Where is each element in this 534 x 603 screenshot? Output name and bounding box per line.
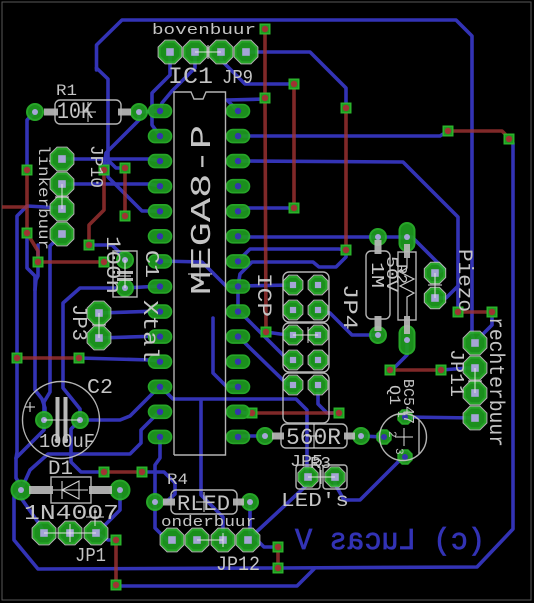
- wire JP4 col2 down to via339: [318, 385, 339, 413]
- wire piezo pad2 branch: [435, 286, 458, 298]
- wire red x104: [89, 170, 104, 245]
- wire 560R right pad to Q1 mid: [361, 436, 384, 437]
- Piezo origin line+cross: [428, 273, 442, 298]
- wire bottom rail left part: [14, 490, 278, 569]
- capacitor C2 outline: [23, 382, 100, 459]
- via (509,139): [504, 134, 514, 144]
- svg-text:R1: R1: [56, 82, 77, 100]
- via (458,312): [453, 307, 463, 317]
- pad D1 cathode pad: [111, 481, 130, 500]
- via (265,98): [260, 93, 270, 103]
- wire JP3 pad2 to DIP pin10L: [99, 336, 160, 338]
- JP1 aux cross: [86, 508, 104, 526]
- pad JP12 pin 1: [160, 528, 184, 552]
- via (116,585): [111, 580, 121, 590]
- pad LED header pin 1: [298, 467, 318, 487]
- via (27,170): [22, 165, 32, 175]
- wire Q1 top pad to JP11 pad4: [405, 417, 475, 418]
- pad JP11 pin 2: [463, 356, 487, 380]
- pad ICP/JP4 colB pin 1: [308, 275, 328, 295]
- wire JP9 pad1 to DIP pin2L: [152, 52, 170, 136]
- pad ICP/JP4 colB pin 5: [308, 375, 328, 395]
- pad Q1 base: [377, 430, 390, 443]
- wire DIP pin8R to ICP pad: [238, 285, 293, 286]
- via (492,312): [487, 307, 497, 317]
- wire right border from via509 to bottom: [278, 139, 513, 568]
- wire C1 bottom pad to DIP pin8L: [125, 286, 160, 288]
- svg-text:JP12: JP12: [216, 554, 260, 577]
- wire red ICP long: [265, 29, 266, 332]
- svg-text:D1: D1: [48, 458, 73, 481]
- wire LED pad1 diag to JP12 pad4: [248, 484, 308, 540]
- pad JP3 pin 2: [87, 326, 111, 350]
- wire red B: [292, 84, 296, 208]
- pad JP9 pin 4: [234, 40, 258, 64]
- resistor R3 560R body: [272, 424, 355, 448]
- diode PZ body (vertical): [398, 244, 416, 334]
- R1 origin cross: [80, 102, 96, 122]
- JP4 origin cross: [293, 327, 318, 343]
- wire Q1 bottom to LED pad2: [335, 457, 405, 500]
- pad JP10 pin 4: [50, 222, 74, 246]
- wire D1 left pad to JP1 pad1: [21, 498, 44, 533]
- wire red Q1: [390, 368, 441, 372]
- via (142,472): [137, 467, 147, 477]
- pad JP10 pin 1: [50, 147, 74, 171]
- svg-text:R4: R4: [167, 471, 188, 489]
- svg-text:1N4007: 1N4007: [24, 503, 119, 526]
- via (346,108): [341, 103, 351, 113]
- via (390,370): [385, 365, 395, 375]
- pad R1 pad 1: [27, 104, 43, 120]
- via (116,540): [111, 535, 121, 545]
- svg-text:100n: 100n: [100, 236, 123, 294]
- svg-text:JP3: JP3: [66, 304, 89, 341]
- wire DIP pin1R to via265: [227, 99, 265, 111]
- svg-text:Piezo: Piezo: [452, 249, 475, 312]
- capacitor C1 outline: [113, 251, 137, 297]
- pad R1 pad 2: [131, 104, 147, 120]
- pad JP12 pin 4: [236, 528, 260, 552]
- svg-text:100uF: 100uF: [39, 431, 95, 453]
- svg-text:IC1: IC1: [168, 64, 213, 90]
- R3 origin cross: [306, 424, 322, 448]
- svg-text:C2: C2: [87, 377, 113, 400]
- via (252,413): [247, 408, 257, 418]
- resistor R1 body: [44, 100, 131, 124]
- wire red JP12: [276, 547, 280, 568]
- pad JP9 pin 3: [209, 40, 233, 64]
- wire DIP pin13R to via252: [238, 411, 252, 413]
- pad C1 pad 2: [117, 280, 133, 296]
- Q1 origin cross: [395, 428, 413, 446]
- wire JP10 pad1 to DIP pin3L: [62, 159, 160, 161]
- R4 origin cross: [196, 492, 212, 512]
- via (27,233): [22, 228, 32, 238]
- via (346,250): [341, 245, 351, 255]
- wire red left A: [27, 170, 38, 262]
- pad Piezo connector pin 1: [424, 262, 445, 283]
- pad JP11 pin 3: [463, 381, 487, 405]
- resistor R2 1M body (vertical): [366, 240, 390, 331]
- LED origin line+cross: [308, 470, 335, 484]
- wire red x125: [123, 168, 127, 216]
- wire DIP pin14R to 560R left pad: [238, 434, 265, 438]
- wire red y413: [252, 411, 339, 415]
- wire diag to DIP pin5L: [108, 163, 160, 211]
- wire D1 right pad to JP1 pad3: [96, 490, 120, 533]
- wire left rail from top to via125: [97, 68, 126, 168]
- JP12 origin line+cross: [197, 533, 223, 547]
- via (79,358): [74, 353, 84, 363]
- via (266,332): [261, 327, 271, 337]
- via (89,245): [84, 240, 94, 250]
- wire C2 pad1 down to D1 pad: [16, 420, 44, 486]
- wire C2 right pad to DIP pin12L: [80, 386, 160, 420]
- pad JP10 pin 3: [50, 197, 74, 221]
- diode D1 body: [29, 477, 112, 503]
- wire via346 lower branch to pin8R: [238, 250, 346, 286]
- wire JP10 pad3 to left rail: [17, 206, 62, 353]
- JP11 origin line+cross: [468, 368, 482, 393]
- wire C2 pad2 to via104: [71, 420, 104, 472]
- wire red JP1: [114, 540, 118, 585]
- wire JP3 pad1 to DIP pin9L: [99, 311, 160, 313]
- wire R1 left pad to via27: [27, 112, 35, 170]
- via (339,413): [334, 408, 344, 418]
- via (38,262): [33, 257, 43, 267]
- wire red y362: [17, 356, 79, 360]
- wire via38 to C2 left pad rail: [35, 245, 38, 290]
- wire DIP pin12R to LED pad1: [213, 318, 238, 386]
- wire via441 to JP11 pad2: [441, 368, 475, 370]
- pad JP1 pin 1: [32, 521, 56, 545]
- pad ICP/JP4 colB pin 4: [308, 350, 328, 370]
- via (294,84): [289, 79, 299, 89]
- pad Piezo connector pin 2: [424, 287, 445, 308]
- pad R3 560R pad 1: [257, 428, 273, 444]
- via (17,358): [12, 353, 22, 363]
- wire DIP pin10R to ICP pad3: [238, 311, 293, 360]
- wire red y473: [104, 470, 142, 474]
- wire via62 to DIP pin11L: [79, 358, 160, 361]
- wire JP9 pad2 to DIP pin1L: [160, 52, 195, 111]
- via (441,370): [436, 365, 446, 375]
- wire DIP pin7L inner to pin8R: [160, 261, 238, 286]
- via (448,131): [443, 126, 453, 136]
- wire JP10 pad4 down to C2 left pad: [44, 234, 62, 420]
- wire red top right: [448, 131, 509, 138]
- wire R1 right pad to DIP pin1L: [139, 111, 160, 112]
- svg-text:10K: 10K: [57, 99, 93, 125]
- pad ICP/JP4 colA pin 5: [283, 375, 303, 395]
- wire via266 to ICP pad: [266, 332, 293, 335]
- svg-text:LED's: LED's: [281, 490, 349, 512]
- JP4/ICP 2x2 outlines: [283, 272, 329, 423]
- via (125,168): [120, 163, 130, 173]
- wire red C: [344, 108, 348, 250]
- pad ICP/JP4 colB pin 2: [308, 300, 328, 320]
- wire DIP pin12L to LED pad1 long: [160, 386, 307, 477]
- wire PZ bottom pad to via390: [390, 345, 407, 370]
- wire R4 left pad to DIP pin14L: [155, 436, 160, 502]
- pad C1 pad 1: [117, 252, 133, 268]
- wire DIP pin13L to bottom left: [21, 411, 160, 490]
- via (104,262): [99, 257, 109, 267]
- pad ICP/JP4 colB pin 3: [308, 325, 328, 345]
- JP10 origin line+cross: [55, 184, 69, 209]
- svg-text:linkerbuur: linkerbuur: [34, 145, 52, 250]
- svg-text:2: 2: [385, 431, 397, 438]
- pad JP3 pin 1: [87, 301, 111, 325]
- wire DIP pin5R to via294: [238, 208, 294, 211]
- pad JP1 pin 3: [84, 521, 108, 545]
- wire DIP pin11R to ICP pad4: [238, 336, 293, 385]
- pad C2 - pad: [72, 412, 88, 428]
- wire via142 to R4 pad1: [142, 472, 175, 502]
- wire via89 to C1 top pad: [89, 245, 125, 260]
- wire C1 pad2 rail to C2 pad2: [63, 288, 125, 420]
- pad ICP/JP4 colA pin 2: [283, 300, 303, 320]
- via (265,29): [260, 24, 270, 34]
- pad R3 560R pad 2: [353, 428, 369, 444]
- pad Q1 collector: [398, 410, 411, 423]
- svg-text:rechterbuur: rechterbuur: [483, 317, 506, 447]
- wire red JP11: [458, 310, 492, 314]
- via (104,472): [99, 467, 109, 477]
- via (104,170): [99, 165, 109, 175]
- pad ICP/JP4 colA pin 4: [283, 350, 303, 370]
- JP1 origin line+cross: [44, 524, 96, 542]
- wire JP10 pad2 to DIP pin4L: [62, 184, 160, 186]
- LED pads square outlines: [296, 465, 347, 489]
- svg-text:Xtal: Xtal: [137, 300, 160, 362]
- svg-text:MEGA8-P: MEGA8-P: [186, 125, 219, 295]
- IC1 DIP-28 pads: [149, 105, 172, 118]
- pad PZ pad 2: [400, 326, 415, 354]
- pad JP12 pin 2: [185, 528, 209, 552]
- pad ICP/JP4 colA pin 3: [283, 325, 303, 345]
- IC1 DIP outline with notch: [174, 92, 226, 455]
- wire DIP pin8R to pin9R vertical: [236, 286, 240, 311]
- pad JP11 pin 4: [463, 406, 487, 430]
- JP9 origin line+cross: [195, 45, 221, 59]
- via (278,547): [273, 542, 283, 552]
- wire R1 right pad diag to via104: [104, 116, 139, 170]
- wire red branch y207: [2, 205, 27, 209]
- svg-text:JP11: JP11: [445, 349, 467, 397]
- wire JP4 col2 to 1M bottom pad: [318, 310, 378, 335]
- svg-text:R3: R3: [310, 455, 331, 474]
- wire y401 branch down to JP12 pad3: [201, 401, 223, 540]
- via (278,568): [273, 563, 283, 573]
- svg-text:(c) Lucas V: (c) Lucas V: [295, 524, 485, 559]
- wire red horizontal y262: [38, 260, 104, 264]
- JP3 origin line+cross: [92, 313, 106, 338]
- pad R2 1M pad 2: [370, 327, 386, 343]
- svg-text:JP4: JP4: [337, 284, 360, 330]
- wire via492 to JP11 pad1: [475, 312, 492, 343]
- pad JP1 pin 2: [58, 521, 82, 545]
- pad PZ pad 1: [400, 223, 415, 251]
- pad JP10 pin 2: [50, 172, 74, 196]
- via (125,216): [120, 211, 130, 221]
- pad LED header pin 2: [325, 467, 345, 487]
- wire R4 left pad to JP12 pad1: [155, 502, 172, 540]
- svg-text:bovenbuur: bovenbuur: [152, 22, 256, 39]
- pad C2 + pad: [36, 412, 52, 428]
- wire JP1 pad3 to via116: [96, 533, 116, 540]
- pad JP11 pin 1: [463, 331, 487, 355]
- wire DIP pin2R long to via448: [238, 131, 448, 136]
- IC1 origin cross: [188, 262, 212, 286]
- pad R2 1M pad 1: [370, 229, 386, 245]
- svg-text:C1: C1: [140, 250, 162, 278]
- pad JP12 pin 3: [211, 528, 235, 552]
- svg-text:JP10: JP10: [85, 145, 105, 188]
- transistor Q1 TO-92 outline: [380, 414, 427, 461]
- wire bottom second rail: [116, 569, 314, 586]
- pad D1 anode pad: [12, 481, 31, 500]
- wire via17 down along edge: [16, 363, 17, 458]
- svg-text:R2: R2: [392, 264, 409, 284]
- wire R4 right pad to via278: [250, 502, 278, 547]
- svg-text:ICP: ICP: [251, 273, 274, 317]
- via (294,208): [289, 203, 299, 213]
- wire DIP pin6R to 1M top pad: [238, 237, 444, 273]
- svg-text:3: 3: [392, 448, 404, 455]
- pad R4 pad 1: [147, 494, 163, 510]
- svg-text:onderbuur: onderbuur: [161, 514, 256, 531]
- svg-text:JP1: JP1: [75, 545, 106, 567]
- wire DIP pin7R to via346: [238, 249, 346, 261]
- wire DIP pin3R to piezo: [238, 161, 458, 312]
- wire JP9 pad4 to via348: [246, 52, 346, 108]
- resistor R4 RLED body: [163, 490, 244, 514]
- svg-text:1: 1: [394, 411, 406, 418]
- pad JP9 pin 2: [183, 40, 207, 64]
- wire via25 down rail to JP1: [27, 233, 45, 419]
- svg-text:560R: 560R: [286, 425, 341, 451]
- pad R4 pad 2: [242, 494, 258, 510]
- pad Q1 emitter: [398, 450, 411, 463]
- wire JP9 pad3 to via294: [221, 56, 294, 84]
- wire top border net: [97, 20, 476, 343]
- svg-text:JP9: JP9: [222, 67, 253, 89]
- pad ICP/JP4 colA pin 1: [283, 275, 303, 295]
- pad JP9 pin 1: [158, 40, 182, 64]
